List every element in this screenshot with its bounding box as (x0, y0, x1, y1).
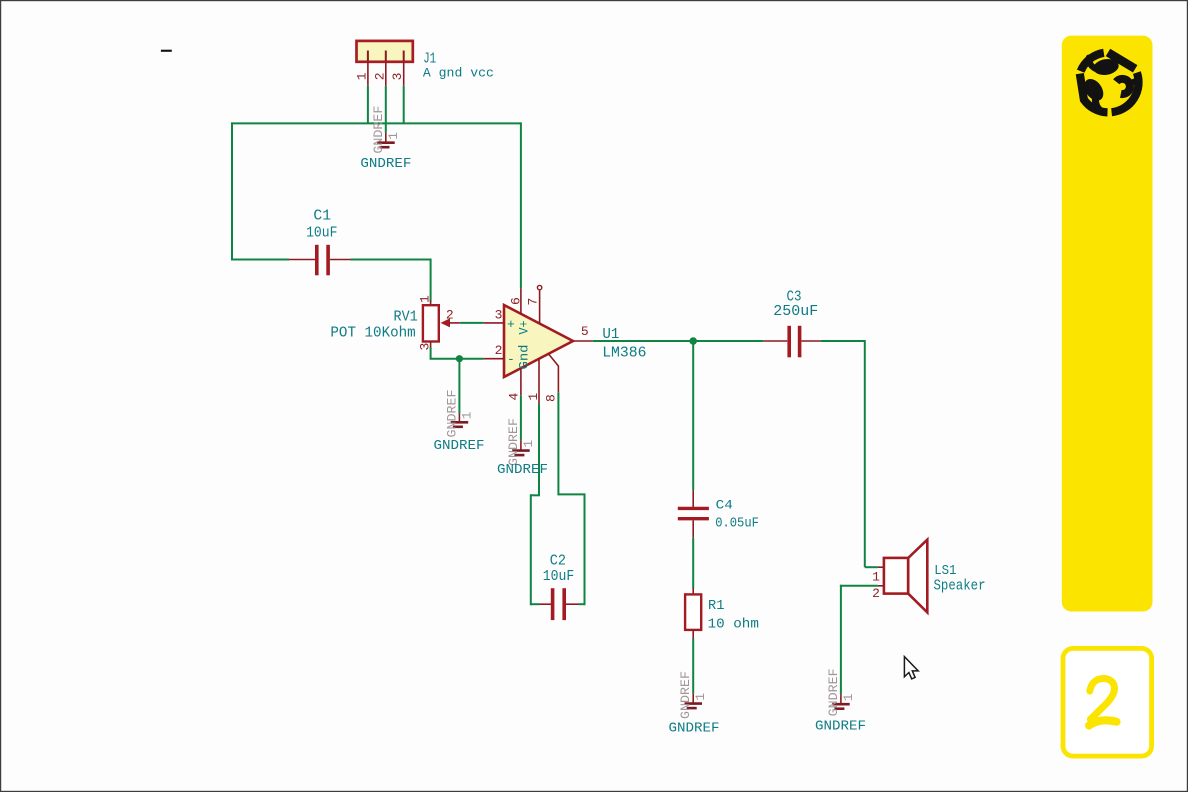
wire C4 to R1 (692, 538, 694, 589)
svg-text:GNDREF: GNDREF (434, 438, 485, 454)
wire U1 pin1 down to C2 loop (531, 404, 540, 606)
U1 pin 7 unconnected (526, 285, 542, 324)
ground GNDREF below R1 (669, 671, 720, 736)
svg-text:C1: C1 (313, 208, 331, 225)
svg-text:0.05uF: 0.05uF (715, 516, 759, 532)
op-amp U1 (504, 305, 647, 377)
svg-text:GNDREF: GNDREF (815, 719, 866, 735)
resistor R1 (685, 588, 759, 639)
svg-text:C4: C4 (716, 498, 733, 513)
wire U1 output (593, 340, 763, 342)
toolbar dash mark (161, 50, 172, 52)
wire top horizontal (231, 122, 521, 124)
J1 pin 1 (355, 62, 370, 86)
U1 pin 2 (484, 343, 504, 359)
svg-text:POT 10Kohm: POT 10Kohm (330, 325, 415, 342)
svg-text:2: 2 (872, 586, 880, 601)
U1 pin 8 (544, 354, 559, 402)
svg-text:10 ohm: 10 ohm (708, 617, 759, 633)
svg-text:GNDREF: GNDREF (678, 671, 693, 719)
ground GNDREF below speaker (815, 668, 866, 734)
capacitor C2 (540, 553, 579, 621)
svg-text:GNDREF: GNDREF (669, 720, 720, 736)
Fritzing logo (1080, 52, 1139, 112)
svg-text:1: 1 (355, 72, 370, 80)
svg-text:7: 7 (526, 298, 541, 306)
U1 pin 3 (484, 308, 504, 323)
svg-text:1: 1 (386, 132, 401, 140)
svg-text:3: 3 (390, 72, 405, 80)
svg-text:2: 2 (495, 343, 503, 358)
U1 pin 1 (526, 359, 541, 404)
svg-text:+: + (507, 317, 515, 332)
junction node at RV1/U1 pin2 (456, 355, 463, 362)
svg-text:LM386: LM386 (602, 344, 646, 361)
wire RV1 pin3 down and right to U1 pin2 (430, 342, 484, 359)
junction node at output (689, 337, 697, 345)
U1 pin 4 (507, 368, 522, 400)
svg-text:1: 1 (841, 693, 856, 701)
svg-text:10uF: 10uF (543, 568, 575, 585)
svg-text:RV1: RV1 (394, 308, 418, 325)
svg-text:5: 5 (581, 324, 589, 339)
svg-text:1: 1 (872, 570, 880, 585)
svg-text:GNDREF: GNDREF (444, 390, 459, 438)
page number badge 2 (1063, 648, 1152, 756)
wire J1 pin2 down (385, 86, 387, 133)
svg-text:GNDREF: GNDREF (826, 668, 841, 716)
wire C2 right up to U1 pin8 (558, 392, 585, 605)
svg-text:3: 3 (495, 308, 503, 323)
svg-text:R1: R1 (708, 599, 724, 614)
svg-text:6: 6 (509, 297, 524, 305)
wire junction down to C4 (692, 341, 694, 490)
svg-text:GNDREF: GNDREF (360, 156, 411, 172)
wire C3 to speaker branch (820, 340, 864, 567)
ground GNDREF below RV1 (434, 390, 485, 454)
svg-text:GNDREF: GNDREF (506, 418, 521, 466)
svg-text:8: 8 (544, 394, 559, 402)
mouse cursor (904, 657, 918, 679)
svg-text:1: 1 (459, 411, 474, 419)
wire RV1 wiper to U1 pin3 (460, 322, 484, 324)
wire speaker pin 2 to ground (840, 585, 885, 694)
svg-text:-: - (507, 352, 515, 367)
svg-text:250uF: 250uF (773, 303, 818, 320)
svg-text:1: 1 (693, 693, 708, 701)
svg-text:1: 1 (418, 295, 433, 303)
svg-text:10uF: 10uF (306, 224, 337, 241)
wire C1 left (231, 259, 289, 261)
wire left vertical (231, 122, 233, 260)
capacitor C3 (763, 289, 820, 358)
wire to speaker pin 1 (865, 566, 885, 568)
wire J1 pin3 down (403, 86, 405, 124)
wire junction down to ground (458, 359, 460, 414)
capacitor C1 (289, 208, 351, 276)
connector J1 (357, 41, 413, 62)
potentiometer RV1 (330, 295, 460, 351)
svg-text:V+: V+ (516, 320, 531, 334)
svg-text:1: 1 (521, 440, 536, 448)
wire U1 pin4 down (520, 395, 522, 440)
wire right vertical to U1 pin6 (520, 122, 522, 288)
svg-text:GNDREF: GNDREF (497, 462, 548, 478)
svg-text:A gnd vcc: A gnd vcc (423, 67, 494, 81)
svg-text:1: 1 (526, 393, 541, 401)
ground GNDREF below U1 pin4 (497, 418, 548, 478)
wire C1 to RV1 (351, 259, 431, 302)
svg-text:GNDREF: GNDREF (371, 106, 386, 154)
svg-text:2: 2 (446, 307, 454, 322)
J1 labels (423, 51, 494, 81)
J1 pin 2 (372, 62, 387, 86)
svg-text:4: 4 (507, 393, 522, 401)
capacitor C4 (678, 490, 759, 538)
U1 pin 6 (509, 288, 524, 314)
ground GNDREF under J1 (360, 106, 411, 172)
wire R1 down to ground (692, 638, 694, 693)
J1 pin 3 (390, 62, 405, 86)
svg-text:Gnd: Gnd (516, 345, 531, 370)
sidebar yellow bar (1062, 36, 1153, 612)
speaker LS1 (872, 540, 985, 613)
U1 pin 5 output (573, 324, 593, 341)
wire J1 pin1 down (367, 86, 369, 124)
svg-text:LS1: LS1 (934, 563, 956, 579)
svg-text:2: 2 (372, 72, 387, 80)
svg-text:J1: J1 (423, 51, 436, 68)
svg-text:Speaker: Speaker (934, 579, 986, 595)
